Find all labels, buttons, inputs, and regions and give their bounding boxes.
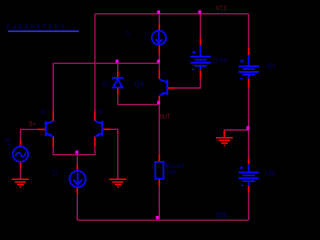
pin Q1 emitter [52,137,54,147]
pin ground G3 stem [223,130,225,138]
wire Q3 base to battery V1 [175,79,201,88]
pin Q3 base [168,87,175,89]
wire node A down to Q3 collector [158,63,160,69]
junction dot top rail at I1 column [157,10,160,13]
wire bottom VEE rail [77,219,248,221]
wire VS to ground G1 [20,169,22,180]
svg-text:OUT: OUT [160,114,171,122]
battery V3 [239,164,259,186]
battery V1 [190,45,210,70]
sine source VS [13,147,28,162]
ground G1 [12,179,29,187]
wire I1 top [158,14,160,24]
svg-text:VEE: VEE [216,212,227,220]
junction dot node A at I1 bottom [157,60,160,63]
pin diode D1 bottom [117,88,119,95]
junction dot emitters join [75,151,78,154]
pin diode D1 top [117,71,119,77]
wire V2 bottom to mid node [248,88,250,159]
transistor Q3 [159,79,167,95]
junction dot VEE rail at resistor column [156,216,159,219]
junction dot node A at diode [116,60,119,63]
svg-text:Q2: Q2 [97,109,103,117]
svg-text:Q3: Q3 [135,82,145,90]
wire Q1 base input [21,128,38,130]
wire right column V2 top [248,14,250,48]
svg-text:15V: 15V [265,171,276,179]
underline PARAMETERS [8,30,79,32]
svg-text:I1: I1 [126,31,131,39]
pin Q3 emitter [158,96,160,104]
pin resistor bottom [158,179,160,187]
junction dot mid right at ground G3 [246,126,249,129]
transistor Q1 [46,121,53,137]
diode D1 [113,78,124,88]
ground G3 [216,138,233,146]
wire node A horizontal [53,62,159,64]
wire V3 bottom to VEE rail [248,193,250,221]
pin VS source bottom [20,162,22,169]
current source I1 [152,31,166,45]
pin Q1 collector [52,111,54,121]
svg-text:B+: B+ [29,121,36,129]
junction dot node OUT [157,101,160,104]
pin battery V2 bottom [248,79,250,88]
pin I2 bottom [76,187,78,194]
pin Q2 emitter [94,137,96,147]
pin Q2 collector [94,111,96,121]
wire I2 top [76,155,78,164]
wire diode top [117,63,119,71]
wire mid node to ground G3 [224,129,248,131]
wire Q1 collector drop [52,63,54,111]
pin battery V3 bottom [248,186,250,193]
pin Q1 base [37,128,45,130]
wire emitters join [53,146,95,155]
pin battery V1 top [199,39,201,46]
wire node OUT down to resistor [158,105,160,154]
wire top VCC rail [95,13,249,15]
pin battery V1 bottom [199,70,201,79]
pin I1 top [158,24,160,31]
battery V2 [239,55,259,78]
current source I2 [70,171,86,187]
wire battery V1 top [199,14,201,39]
wire diode bottom to node OUT [118,95,160,105]
junction dot top rail at V1 column [198,10,201,13]
pin resistor top [158,154,160,162]
pin VS source top [20,140,22,147]
svg-text:VS: VS [4,138,10,146]
svg-text:15V: 15V [265,63,276,71]
wire input source drop [20,129,22,139]
pin I2 top [76,164,78,171]
svg-text:15V: 15V [214,57,228,65]
svg-text:10k: 10k [165,170,177,178]
svg-text:Q1: Q1 [41,109,47,117]
pin Q3 collector [158,69,160,79]
wire left VCC drop to Q2 collector [94,14,96,111]
wire I2 bottom to VEE rail [76,194,78,220]
pin Q2 base [103,128,111,130]
svg-text:VCC: VCC [216,5,228,13]
transistor Q2 [95,121,102,137]
wire I1 bottom to node A [158,55,160,63]
pin battery V2 top [248,48,250,55]
ground G2 [109,179,126,187]
pin I1 bottom [158,45,160,55]
pin battery V3 top [248,159,250,165]
wire Q2 base to ground G2 [111,129,118,179]
resistor Rload [155,162,163,179]
svg-text:D1: D1 [102,81,109,89]
wire resistor bottom to VEE rail [158,187,160,221]
svg-text:I2: I2 [52,170,58,178]
